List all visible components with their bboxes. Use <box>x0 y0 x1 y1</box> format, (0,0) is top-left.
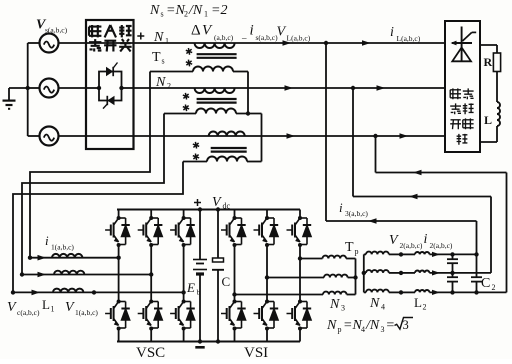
svg-text:2(a,b,c): 2(a,b,c) <box>400 241 423 250</box>
label V_L(a,b,c) <box>277 25 311 43</box>
formula Np=N4/N3=sqrt3 <box>326 317 413 334</box>
battery E <box>193 210 207 342</box>
IGBT VSC leg3 top <box>170 210 195 293</box>
label N_4 <box>369 296 385 312</box>
label E <box>186 280 201 297</box>
text 输入静态开关 <box>89 25 132 52</box>
svg-text:2: 2 <box>184 10 188 19</box>
wire to ground <box>9 87 28 89</box>
transformer Tsb core <box>197 99 237 103</box>
arrow i2 a <box>432 252 440 257</box>
node N4 star <box>362 271 366 275</box>
wire i3 a riser <box>476 221 478 254</box>
minus sign DC <box>195 346 204 349</box>
svg-text:3(a,b,c): 3(a,b,c) <box>345 209 368 218</box>
transformer Tp N3 winding a <box>323 256 347 259</box>
wire N3b to star <box>348 277 356 279</box>
wire N4b out <box>389 272 401 274</box>
capacitor C2 bank column 1 <box>447 252 458 294</box>
AC source V_s phase a <box>40 34 59 53</box>
wire i3 b horizontal <box>353 196 491 198</box>
svg-text:E: E <box>186 280 195 295</box>
wire source c to switch <box>59 135 87 137</box>
inductor L2 c <box>415 290 429 292</box>
label C_2 <box>481 276 496 292</box>
wire tap a down <box>325 43 327 221</box>
node VSC leg2 midpoint <box>149 272 153 276</box>
svg-text:=N: =N <box>166 3 185 18</box>
label V_dc <box>212 195 231 211</box>
node VSI leg1 midpoint <box>232 292 236 296</box>
IGBT VSI leg1 bottom <box>221 295 246 342</box>
arrow i1 a <box>38 255 47 261</box>
anti-parallel thyristor pair <box>97 63 124 109</box>
wire tap b down <box>352 88 354 197</box>
wire source c stub <box>28 135 40 137</box>
svg-text:1: 1 <box>51 305 55 314</box>
wire N4a out <box>389 253 401 255</box>
svg-text:R: R <box>484 55 493 69</box>
wire Tsb secondary left <box>164 113 196 115</box>
svg-text:/N: /N <box>188 3 203 18</box>
wire source b to switch <box>59 87 87 89</box>
node load tap c <box>373 134 377 138</box>
svg-text:1: 1 <box>204 10 208 19</box>
transformer Tsb secondary N2 winding <box>196 109 236 114</box>
wire Tsc secondary to L1 line 3 <box>13 162 183 293</box>
IGBT VSC leg2 bottom <box>138 275 163 342</box>
capacitor C2 column 2 <box>471 252 482 294</box>
label i_2(a,b,c) <box>424 232 453 250</box>
svg-text:1(a,b,c): 1(a,b,c) <box>75 308 98 317</box>
svg-text:VSC: VSC <box>136 345 165 359</box>
arrow line a 2 <box>362 40 371 46</box>
svg-text:C: C <box>222 274 231 289</box>
svg-text:Δ: Δ <box>191 23 201 39</box>
wire DC bottom bus <box>117 341 300 343</box>
wire Tsa secondary to L1 line 1 <box>30 72 150 258</box>
node VSC leg3 midpoint <box>181 290 185 294</box>
arrow i3 a <box>368 218 377 224</box>
wire source a to switch <box>59 42 87 44</box>
arrow line b 1 <box>285 85 294 91</box>
arrow line a 1 <box>283 40 292 46</box>
label i_1(a,b,c) <box>45 233 74 252</box>
polarity mark Tsa secondary <box>186 60 192 67</box>
label V_2(a,b,c) <box>389 233 423 250</box>
node V1 tap <box>92 290 96 294</box>
svg-text:L: L <box>42 297 50 312</box>
svg-text:3: 3 <box>341 304 345 313</box>
label N_2 <box>155 75 171 91</box>
transformer Tsa core <box>197 54 237 58</box>
arrow line b 2 <box>377 85 386 91</box>
svg-text:L(a,b,c): L(a,b,c) <box>397 34 421 43</box>
transformer Tp N4 winding c <box>366 290 389 293</box>
polarity mark Tsc secondary <box>193 153 199 160</box>
rectifier bridge box <box>445 21 480 152</box>
IGBT VSI leg3 bottom <box>287 259 312 342</box>
label i_3(a,b,c) <box>339 200 368 218</box>
wire N4c out <box>389 291 401 293</box>
arrow i2 b <box>432 270 440 275</box>
node battery top <box>198 207 202 211</box>
svg-text:C: C <box>481 276 490 291</box>
capacitor C dc <box>212 210 224 342</box>
svg-text:N: N <box>326 318 337 333</box>
svg-text:i: i <box>45 233 49 248</box>
wire DC top bus <box>117 209 300 211</box>
node V2 tap b <box>399 271 403 275</box>
label dV and i_s <box>191 23 278 43</box>
ground source <box>3 101 16 109</box>
node battery bottom <box>198 339 202 343</box>
svg-text:2: 2 <box>423 303 427 312</box>
thyristor symbol <box>451 27 477 63</box>
arrow i1 c <box>32 290 41 296</box>
transformer Tsc primary N1 winding <box>209 132 245 137</box>
label N_3 <box>329 297 345 313</box>
wire line c to rectifier <box>134 135 446 137</box>
svg-text:_: _ <box>241 30 247 40</box>
arrow line c 1 <box>287 133 296 139</box>
label N_1 <box>153 30 169 46</box>
label T_s <box>152 50 165 66</box>
transformer Tp N4 winding a <box>366 252 389 255</box>
AC source V_s phase b <box>40 79 59 98</box>
svg-text:dc: dc <box>223 202 231 211</box>
svg-text:s: s <box>161 10 164 19</box>
wire L2 c to output <box>429 291 506 293</box>
wire i3 c riser <box>506 173 508 293</box>
wire L1 line1 <box>30 257 119 259</box>
svg-text:V: V <box>389 233 399 248</box>
node corner L1 line 3 <box>11 290 15 294</box>
svg-text:1(a,b,c): 1(a,b,c) <box>51 243 74 252</box>
node load tap b <box>351 86 355 90</box>
svg-text:i: i <box>424 232 428 247</box>
label V_c(a,b,c) <box>7 300 40 317</box>
wire into thyristor pair <box>86 87 99 89</box>
svg-text:4: 4 <box>381 303 385 312</box>
wire phase c through switch <box>86 135 134 137</box>
inductor L2 b <box>415 271 429 273</box>
node corner L1 line 1 <box>28 256 32 260</box>
svg-text:c(a,b,c): c(a,b,c) <box>17 308 40 317</box>
svg-text:s(a,b,c): s(a,b,c) <box>45 26 68 35</box>
svg-text:2: 2 <box>492 283 496 292</box>
inductor L load <box>497 102 500 126</box>
arrow line c 2 <box>400 133 409 139</box>
wire line b to rectifier <box>134 87 446 89</box>
svg-text:2(a,b,c): 2(a,b,c) <box>430 241 453 250</box>
label T_p <box>345 240 359 256</box>
label V_s(a,b,c) <box>36 18 68 35</box>
inductor L1 c <box>53 289 83 293</box>
wire VSI leg2 to N3b <box>267 277 324 279</box>
IGBT VSC leg1 top <box>105 210 130 258</box>
node VSI leg2 midpoint <box>265 275 269 279</box>
polarity mark Tsb secondary <box>183 104 189 111</box>
arrow i1 b <box>38 272 47 278</box>
wire N3c to star <box>347 294 356 296</box>
wire Ts secondary chain b-c <box>261 114 263 162</box>
wire phase a through switch <box>86 42 134 44</box>
svg-text:L(a,b,c): L(a,b,c) <box>287 34 311 43</box>
node capacitor top <box>216 207 220 211</box>
wire Tsb secondary to L1 line 2 <box>22 114 164 275</box>
wire L2 b to output <box>429 272 491 274</box>
svg-text:3: 3 <box>403 318 409 332</box>
wire N4 star to coil a <box>364 253 366 255</box>
svg-text:(a,b,c): (a,b,c) <box>214 33 234 42</box>
IGBT VSI leg2 bottom <box>254 278 279 342</box>
svg-text:3: 3 <box>381 325 385 334</box>
svg-text:N: N <box>369 296 380 311</box>
wire N3 star vertical <box>355 259 357 295</box>
svg-text:=N: =N <box>343 318 362 333</box>
transformer Tp N4 winding b <box>366 270 389 273</box>
wire N4 star to coil c <box>364 291 366 293</box>
svg-text:N: N <box>153 30 164 45</box>
wire i3 c horizontal <box>376 172 507 174</box>
svg-text:s(a,b,c): s(a,b,c) <box>256 33 279 42</box>
arrow i3 c <box>413 170 422 176</box>
AC source V_s phase c <box>40 127 59 146</box>
wire Tsa secondary left <box>150 71 193 73</box>
polarity mark Tsa primary <box>186 48 192 55</box>
transformer Tsb primary N1 winding <box>195 88 235 93</box>
formula Ns=N2/N1=2 <box>149 3 227 19</box>
wire N4 star to coil b <box>364 272 366 274</box>
resistor R <box>493 53 500 72</box>
wire Tsa secondary right <box>233 71 248 73</box>
polarity mark Tsb primary <box>183 93 189 100</box>
plus sign DC <box>194 199 201 206</box>
wire tap c down <box>375 136 377 173</box>
wire neutral vertical <box>27 43 29 136</box>
arrow i2 c <box>432 290 440 295</box>
label V_1(a,b,c) <box>65 300 98 317</box>
label L_1 <box>42 297 55 314</box>
inductor L2 a <box>415 252 429 254</box>
label i_L(a,b,c) <box>390 25 421 43</box>
wire Ts secondary chain a-b <box>247 72 249 114</box>
svg-text:V: V <box>65 300 75 315</box>
node Ts secondary junction <box>246 111 250 115</box>
node load tap a <box>324 41 328 45</box>
svg-text:N: N <box>149 3 160 18</box>
svg-text:p: p <box>338 325 342 334</box>
svg-text:V: V <box>277 25 287 40</box>
wire L1 line2 <box>22 274 151 276</box>
IGBT VSC leg1 bottom <box>105 258 130 342</box>
transformer Tsa primary N1 winding <box>195 43 235 48</box>
IGBT VSI leg2 top <box>254 210 279 278</box>
inductor L1 a <box>52 254 82 258</box>
svg-text:N: N <box>329 297 340 312</box>
svg-text:i: i <box>250 23 254 39</box>
plus polarity mark line a <box>137 33 144 40</box>
svg-text:2: 2 <box>167 82 171 91</box>
wire i3 a horizontal <box>326 220 477 222</box>
transformer Tsa secondary N2 winding <box>193 67 233 72</box>
wire Tsc secondary left <box>183 161 207 163</box>
inductor L1 b <box>54 271 84 275</box>
polarity mark Tsc primary <box>193 142 199 149</box>
svg-text:i: i <box>339 200 343 215</box>
IGBT VSC leg3 bottom <box>170 292 195 341</box>
svg-text:T: T <box>345 240 354 255</box>
svg-text:VSI: VSI <box>244 345 268 359</box>
svg-text:s: s <box>162 57 165 66</box>
node corner L1 line 2 <box>20 272 24 276</box>
wire L to rectifier <box>496 126 498 142</box>
wire L2 a to output <box>429 253 476 255</box>
wire source b stub <box>28 87 40 89</box>
transformer Tsc secondary N2 winding <box>207 157 247 162</box>
IGBT VSI leg3 top <box>287 210 312 259</box>
svg-text:b: b <box>197 288 201 297</box>
node VSC leg1 midpoint <box>116 256 120 260</box>
wire rectifier to R <box>480 44 497 46</box>
wire source a stub <box>28 42 40 44</box>
wire N4 star vertical <box>363 254 365 292</box>
wire N3a to star <box>346 258 355 260</box>
svg-text:N: N <box>155 75 166 90</box>
transformer Tp N3 winding c <box>323 292 347 295</box>
wire L1 line3 <box>13 291 184 293</box>
svg-text:=2: =2 <box>211 3 227 18</box>
arrow i3 b <box>409 194 418 200</box>
svg-text:1: 1 <box>165 37 169 46</box>
wire line a to rectifier <box>134 42 446 44</box>
input static switch box <box>86 20 134 149</box>
node VSI leg3 midpoint <box>298 256 302 260</box>
transformer Tsc core <box>211 148 247 152</box>
node capacitor bottom <box>216 339 220 343</box>
transformer Tp N3 winding b <box>324 275 348 278</box>
wire R to L <box>496 72 498 103</box>
wire VSI leg3 to N3a <box>300 258 323 260</box>
svg-text:/N: /N <box>365 318 380 333</box>
svg-text:V: V <box>7 300 17 315</box>
label L_2 <box>414 295 427 312</box>
wire Tsc secondary right <box>247 161 262 163</box>
svg-text:L: L <box>484 113 492 127</box>
text 三相相控整流桥 <box>450 88 473 144</box>
wire Tsb secondary right <box>236 113 262 115</box>
IGBT VSI leg1 top <box>221 210 246 295</box>
svg-text:=: = <box>386 318 395 333</box>
IGBT VSC leg2 top <box>138 210 163 275</box>
wire i3 b riser <box>490 197 492 273</box>
svg-text:i: i <box>390 25 394 40</box>
wire VSI leg1 to N3c <box>235 294 324 296</box>
node neutral junction <box>26 86 30 90</box>
node V2 tap a <box>399 252 403 256</box>
svg-text:p: p <box>355 247 359 256</box>
node V2 tap c <box>399 290 403 294</box>
svg-text:4: 4 <box>361 325 365 334</box>
svg-text:T: T <box>152 50 161 65</box>
node N3 star <box>353 275 357 279</box>
svg-text:L: L <box>414 295 422 310</box>
